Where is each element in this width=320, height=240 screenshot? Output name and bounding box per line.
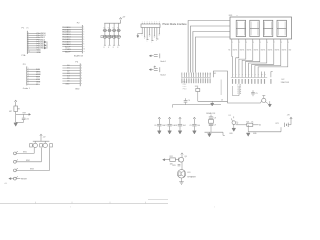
ground bias <box>14 123 18 126</box>
svg-text:+5V: +5V <box>122 16 126 18</box>
svg-text:C5: C5 <box>255 93 257 95</box>
svg-text:R1: R1 <box>284 50 286 52</box>
svg-text:3: 3 <box>28 73 29 75</box>
display DS1 7-segment <box>229 15 292 39</box>
switch SW3 <box>14 147 50 171</box>
svg-text:P3.3: P3.3 <box>183 89 187 91</box>
svg-text:C4: C4 <box>188 100 190 102</box>
svg-text:R: R <box>117 47 119 49</box>
svg-text:a: a <box>142 34 143 36</box>
connector P2 <box>62 22 85 57</box>
wire U1 to Q7 <box>213 71 260 103</box>
ground Q7 <box>268 101 271 107</box>
svg-text:1: 1 <box>142 22 143 24</box>
svg-text:74HC595: 74HC595 <box>281 82 290 84</box>
svg-text:13: 13 <box>210 73 212 75</box>
svg-text:7: 7 <box>252 74 253 76</box>
svg-text:P2: P2 <box>77 22 80 24</box>
power VCC bias <box>15 100 17 106</box>
svg-text:6: 6 <box>267 42 268 44</box>
svg-text:2: 2 <box>83 29 84 31</box>
svg-text:6: 6 <box>154 22 155 24</box>
wire segment display pin 8 <box>255 43 281 71</box>
svg-text:6: 6 <box>28 80 29 82</box>
svg-text:8: 8 <box>255 74 256 76</box>
svg-text:EA/VP: EA/VP <box>65 50 71 53</box>
net arrow SPK <box>163 159 170 161</box>
svg-text:C7: C7 <box>165 125 167 127</box>
svg-text:LS1: LS1 <box>187 172 190 174</box>
svg-text:11: 11 <box>265 74 267 76</box>
svg-text:8: 8 <box>28 47 29 49</box>
svg-text:5: 5 <box>83 36 84 38</box>
wire photo pin 4 <box>149 28 151 36</box>
svg-text:4: 4 <box>253 42 254 44</box>
svg-text:R: R <box>104 47 106 49</box>
svg-text:C3: C3 <box>221 100 223 102</box>
svg-text:C10: C10 <box>26 119 29 121</box>
svg-text:P1: P1 <box>22 28 25 30</box>
pin 12 U2 <box>270 72 272 78</box>
transistor Q7 <box>261 95 268 103</box>
svg-text:a: a <box>154 37 155 39</box>
switch SW2 <box>14 148 42 163</box>
ground xtal wire <box>211 101 214 106</box>
svg-text:C8: C8 <box>175 125 177 127</box>
svg-text:C9: C9 <box>214 124 216 126</box>
svg-text:1K: 1K <box>251 121 254 123</box>
svg-text:4: 4 <box>28 75 29 77</box>
svg-text:U2: U2 <box>282 79 286 81</box>
svg-text:7: 7 <box>83 41 84 43</box>
svg-text:Photo Diode Interface: Photo Diode Interface <box>163 23 188 26</box>
svg-text:2: 2 <box>81 67 82 69</box>
svg-text:6: 6 <box>81 78 82 80</box>
svg-text:10: 10 <box>262 74 264 76</box>
svg-text:11: 11 <box>83 51 85 53</box>
svg-text:8: 8 <box>159 22 160 24</box>
svg-text:R1: R1 <box>228 50 230 52</box>
wire bias out <box>16 112 31 115</box>
resistor R22 <box>170 156 179 166</box>
crystal X1 <box>195 86 200 102</box>
svg-text:4K7: 4K7 <box>9 111 12 113</box>
svg-text:7: 7 <box>156 22 157 24</box>
wire battery return <box>248 125 281 132</box>
ground D1 <box>232 128 236 131</box>
wire segment display pin 5 <box>245 43 259 71</box>
speaker LS1 <box>177 170 196 182</box>
svg-text:CN: CN <box>26 28 29 30</box>
svg-text:3: 3 <box>239 74 240 76</box>
connector P4 <box>62 61 82 90</box>
svg-text:104: 104 <box>183 125 186 127</box>
svg-text:R22: R22 <box>170 156 173 158</box>
svg-text:1: 1 <box>233 74 234 76</box>
svg-text:6: 6 <box>249 74 250 76</box>
svg-text:B1A/B CN: B1A/B CN <box>74 55 84 58</box>
svg-text:flash1: flash1 <box>160 61 166 63</box>
wire resonator gnd <box>205 131 224 133</box>
wire photo pin 5 <box>151 28 153 41</box>
sheet border <box>0 199 215 208</box>
svg-text:R9: R9 <box>18 108 20 110</box>
svg-text:GND: GND <box>75 88 80 90</box>
svg-text:3: 3 <box>28 36 29 38</box>
svg-text:a: a <box>156 40 157 42</box>
svg-text:a: a <box>149 36 150 38</box>
ground battery <box>246 133 257 136</box>
connector J2 photo diode <box>137 22 160 44</box>
svg-text:5: 5 <box>246 74 247 76</box>
svg-text:SW3: SW3 <box>30 168 34 170</box>
svg-text:GND: GND <box>65 83 70 85</box>
transistor Q5 <box>110 23 116 49</box>
capacitor C6 <box>154 117 165 134</box>
resistor R21 <box>236 121 262 126</box>
svg-text:4: 4 <box>81 73 82 75</box>
svg-text:3: 3 <box>83 31 84 33</box>
svg-text:1: 1 <box>232 42 233 44</box>
display bottom pins <box>232 39 289 44</box>
wire segment display pin 1 <box>231 43 234 71</box>
svg-text:A 4: A 4 <box>5 182 8 185</box>
svg-text:3: 3 <box>246 42 247 44</box>
svg-text:7: 7 <box>28 45 29 47</box>
svg-text:+9V: +9V <box>287 114 291 116</box>
digit <box>277 20 286 36</box>
resistor R23 <box>172 164 180 167</box>
svg-text:1: 1 <box>83 27 84 29</box>
svg-text:R1: R1 <box>235 50 237 52</box>
svg-text:R1: R1 <box>256 50 258 52</box>
connector P3 <box>23 64 42 90</box>
capacitor C4 <box>184 98 190 104</box>
wire photo pin 2 <box>144 28 146 38</box>
svg-text:a: a <box>147 40 148 42</box>
svg-text:U1: U1 <box>214 73 216 75</box>
capacitor C7 <box>165 117 176 134</box>
svg-text:Guide 1: Guide 1 <box>23 88 31 90</box>
ground photo <box>138 34 142 36</box>
wire segment display pin 4 <box>242 43 253 71</box>
svg-text:9: 9 <box>288 42 289 44</box>
svg-text:2: 2 <box>144 22 145 24</box>
svg-text:104: 104 <box>197 125 200 127</box>
svg-text:R23: R23 <box>172 165 175 167</box>
svg-text:C9: C9 <box>189 125 191 127</box>
power VCC arrow <box>120 20 122 24</box>
digit <box>263 20 272 36</box>
svg-text:7: 7 <box>81 80 82 82</box>
svg-text:R1: R1 <box>270 50 272 52</box>
svg-text:5: 5 <box>81 75 82 77</box>
wire segment display pin 7 <box>252 43 274 71</box>
resistor R9 <box>9 106 20 122</box>
svg-text:P1A: P1A <box>22 54 26 57</box>
transistor Q4 <box>106 23 112 49</box>
svg-text:4: 4 <box>242 74 243 76</box>
svg-text:2: 2 <box>239 42 240 44</box>
wire photo pin 7 <box>156 28 158 40</box>
svg-text:SW1: SW1 <box>23 151 27 153</box>
wire segment display pin 3 <box>239 43 246 71</box>
svg-text:5: 5 <box>260 42 261 44</box>
transistor Q9 <box>30 141 38 147</box>
digit <box>236 20 245 36</box>
svg-text:4: 4 <box>83 34 84 36</box>
svg-text:5: 5 <box>28 40 29 42</box>
transistor array Q3-Q6 <box>101 16 126 48</box>
svg-text:5: 5 <box>152 22 153 24</box>
svg-text:9: 9 <box>258 74 259 76</box>
svg-text:Q8: Q8 <box>184 156 186 158</box>
svg-text:1: 1 <box>28 68 29 70</box>
svg-text:9: 9 <box>28 49 29 51</box>
svg-text:2: 2 <box>214 207 215 209</box>
svg-text:7: 7 <box>28 83 29 85</box>
svg-text:BT1: BT1 <box>276 123 279 125</box>
svg-text:10: 10 <box>28 51 30 53</box>
svg-text:P3: P3 <box>23 64 26 66</box>
svg-text:a: a <box>159 35 160 37</box>
svg-text:2: 2 <box>236 74 237 76</box>
svg-text:R1: R1 <box>242 50 244 52</box>
svg-text:8: 8 <box>81 83 82 85</box>
wire bus segment 4 <box>195 37 230 73</box>
svg-text:4: 4 <box>28 38 29 40</box>
svg-text:RST: RST <box>23 112 26 114</box>
IC U2 74HC595 <box>231 72 290 96</box>
svg-text:GND: GND <box>37 52 42 54</box>
LED D1 <box>229 115 239 128</box>
transistor Q8 <box>179 153 187 170</box>
power VCC switches <box>40 134 47 141</box>
svg-text:7: 7 <box>274 42 275 44</box>
transistor Q6 <box>115 23 121 49</box>
switch SW1 <box>14 148 35 155</box>
svg-text:3: 3 <box>81 70 82 72</box>
svg-text:2: 2 <box>28 70 29 72</box>
svg-text:6: 6 <box>83 39 84 41</box>
svg-text:X1: X1 <box>195 86 197 88</box>
transistor Q3 <box>101 23 107 49</box>
capacitor C8 <box>175 117 186 134</box>
svg-text:D2: D2 <box>259 125 261 127</box>
svg-text:4: 4 <box>149 22 150 24</box>
svg-text:2: 2 <box>28 34 29 36</box>
svg-text:9: 9 <box>83 46 84 48</box>
svg-text:SPEAKER: SPEAKER <box>187 176 196 179</box>
svg-text:C6: C6 <box>154 125 156 127</box>
svg-text:8: 8 <box>83 44 84 46</box>
resonator Y1 <box>206 112 216 132</box>
wire bus segment 1 <box>188 21 230 73</box>
capacitor C9 <box>189 117 200 134</box>
wire photo pin 1 <box>141 28 143 34</box>
wire photo pin 3 <box>146 28 148 40</box>
battery BT1 <box>276 114 293 127</box>
diode D2 on P1 pins <box>44 41 47 49</box>
wire bus segment 3 <box>193 32 230 73</box>
svg-text:SW2: SW2 <box>26 160 30 162</box>
svg-text:RESET: RESET <box>21 178 28 180</box>
svg-text:P4: P4 <box>75 61 78 63</box>
svg-text:1: 1 <box>81 65 82 67</box>
svg-text:a: a <box>151 41 152 43</box>
wire segment display pin 6 <box>249 43 267 71</box>
ground resonator <box>208 132 212 137</box>
switch SW4 <box>9 176 28 180</box>
svg-text:+5V: +5V <box>43 137 47 139</box>
svg-text:1 QA: 1 QA <box>237 92 242 95</box>
svg-text:8: 8 <box>281 42 282 44</box>
svg-text:R1: R1 <box>277 50 279 52</box>
svg-text:R: R <box>113 47 115 49</box>
svg-text:R1: R1 <box>263 50 265 52</box>
svg-text:flash2: flash2 <box>160 75 166 77</box>
wire VCC rail <box>104 22 120 24</box>
resistors R11-R19 330 <box>228 50 291 52</box>
svg-text:5: 5 <box>28 78 29 80</box>
svg-text:R: R <box>108 47 110 49</box>
wire xtal <box>198 100 228 102</box>
digit <box>250 20 259 36</box>
wire segment display pin 2 <box>236 43 239 71</box>
svg-text:GND: GND <box>253 133 257 135</box>
svg-text:1: 1 <box>28 32 29 34</box>
wire U2 sub <box>233 86 240 96</box>
wire lower <box>173 104 222 106</box>
svg-text:6: 6 <box>28 42 29 44</box>
IC U1 AT89C2051 <box>181 73 222 96</box>
wire switch rail <box>33 140 50 142</box>
connector P1 <box>22 28 47 58</box>
svg-text:C8: C8 <box>214 117 216 119</box>
svg-text:LED: LED <box>229 133 233 135</box>
capacitor C10 <box>16 114 29 122</box>
svg-text:R21: R21 <box>246 121 249 123</box>
svg-text:D1: D1 <box>229 115 231 117</box>
capacitor C5 <box>251 90 257 96</box>
svg-text:10: 10 <box>83 49 85 51</box>
transistor Q10 <box>40 141 53 147</box>
svg-text:R1: R1 <box>249 50 251 52</box>
connector flash1 <box>149 54 166 64</box>
svg-text:3: 3 <box>70 207 71 209</box>
ground speaker <box>179 182 184 184</box>
svg-text:330: 330 <box>289 50 292 52</box>
wire segment display pin 9 <box>258 43 288 71</box>
wire bus segment 2 <box>190 26 230 73</box>
wire photo pin 8 <box>158 28 160 35</box>
wire photo pin 6 <box>153 28 155 37</box>
svg-text:a: a <box>144 38 145 40</box>
svg-text:3: 3 <box>147 22 148 24</box>
connector flash2 <box>149 66 166 77</box>
